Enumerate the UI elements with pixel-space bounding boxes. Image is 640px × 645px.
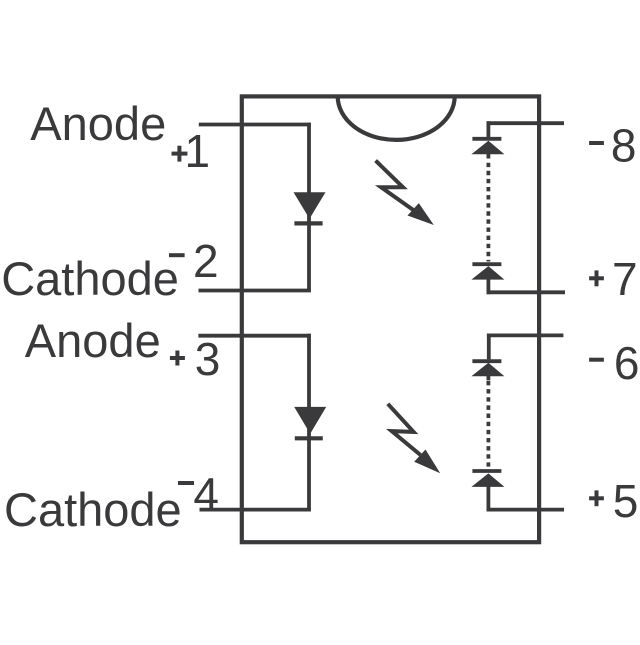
pin number 2 [193,235,219,287]
minus sign pin 2 [169,253,185,257]
wire pin 6 [487,333,564,337]
plus sign pin 1 [172,146,188,162]
pin number 3 [195,333,221,385]
pin 1 index notch [338,96,455,139]
wire LED D1 branch vertical [307,123,311,291]
photodiode PD2 bottom diode [471,471,504,512]
pin number 7 [612,253,638,305]
pin number 6 [614,337,640,389]
label Anode (pin 1) [30,97,166,150]
svg-text:4: 4 [193,468,219,520]
svg-text:8: 8 [611,119,637,171]
photodiode PD1 bottom diode [471,264,504,294]
plus sign pin 7 [589,270,604,286]
wire LED D2 branch vertical [307,334,311,510]
wire photodiode PD1 top corner vertical [486,121,490,137]
svg-text:3: 3 [195,333,221,385]
svg-text:Anode: Anode [25,314,161,367]
plus sign pin 3 [170,351,185,366]
minus sign pin 4 [178,481,194,485]
LED D2 [294,407,326,438]
svg-text:Anode: Anode [30,97,166,150]
light arrow channel 1 [376,161,434,225]
wire pin 8 [487,121,565,125]
wire pin 2 (Cathode) [199,289,311,293]
wire pin 5 [487,508,565,512]
wire pin 7 [487,290,566,294]
plus sign pin 5 [589,490,604,506]
svg-text:5: 5 [613,475,639,527]
PD1 stack dashed link [486,163,490,262]
photodiode PD2 top diode [471,361,504,380]
photodiode PD1 top diode [471,139,504,159]
wire pin 3 (Anode) [198,334,311,338]
svg-text:6: 6 [614,337,640,389]
LED D1 [294,192,326,223]
minus sign pin 6 [589,358,604,362]
pin number 1 [185,125,211,177]
pin number 8 [611,119,637,171]
wire photodiode PD2 top corner vertical [487,334,491,360]
PD2 stack dashed link [486,381,490,467]
label Anode (pin 3) [25,314,161,367]
svg-text:7: 7 [612,253,638,305]
minus sign pin 8 [589,141,604,145]
wire pin 4 (Cathode) [200,508,311,512]
svg-text:Cathode: Cathode [4,483,182,536]
svg-text:Cathode: Cathode [1,252,179,305]
svg-text:1: 1 [185,125,211,177]
pin number 5 [613,475,639,527]
label Cathode (pin 4) [4,483,182,536]
svg-text:2: 2 [193,235,219,287]
IC body outline U1 [242,96,539,542]
label Cathode (pin 2) [1,252,179,305]
light arrow channel 2 [388,404,440,474]
wire pin 1 (Anode) [199,123,311,127]
pin number 4 [193,468,219,520]
